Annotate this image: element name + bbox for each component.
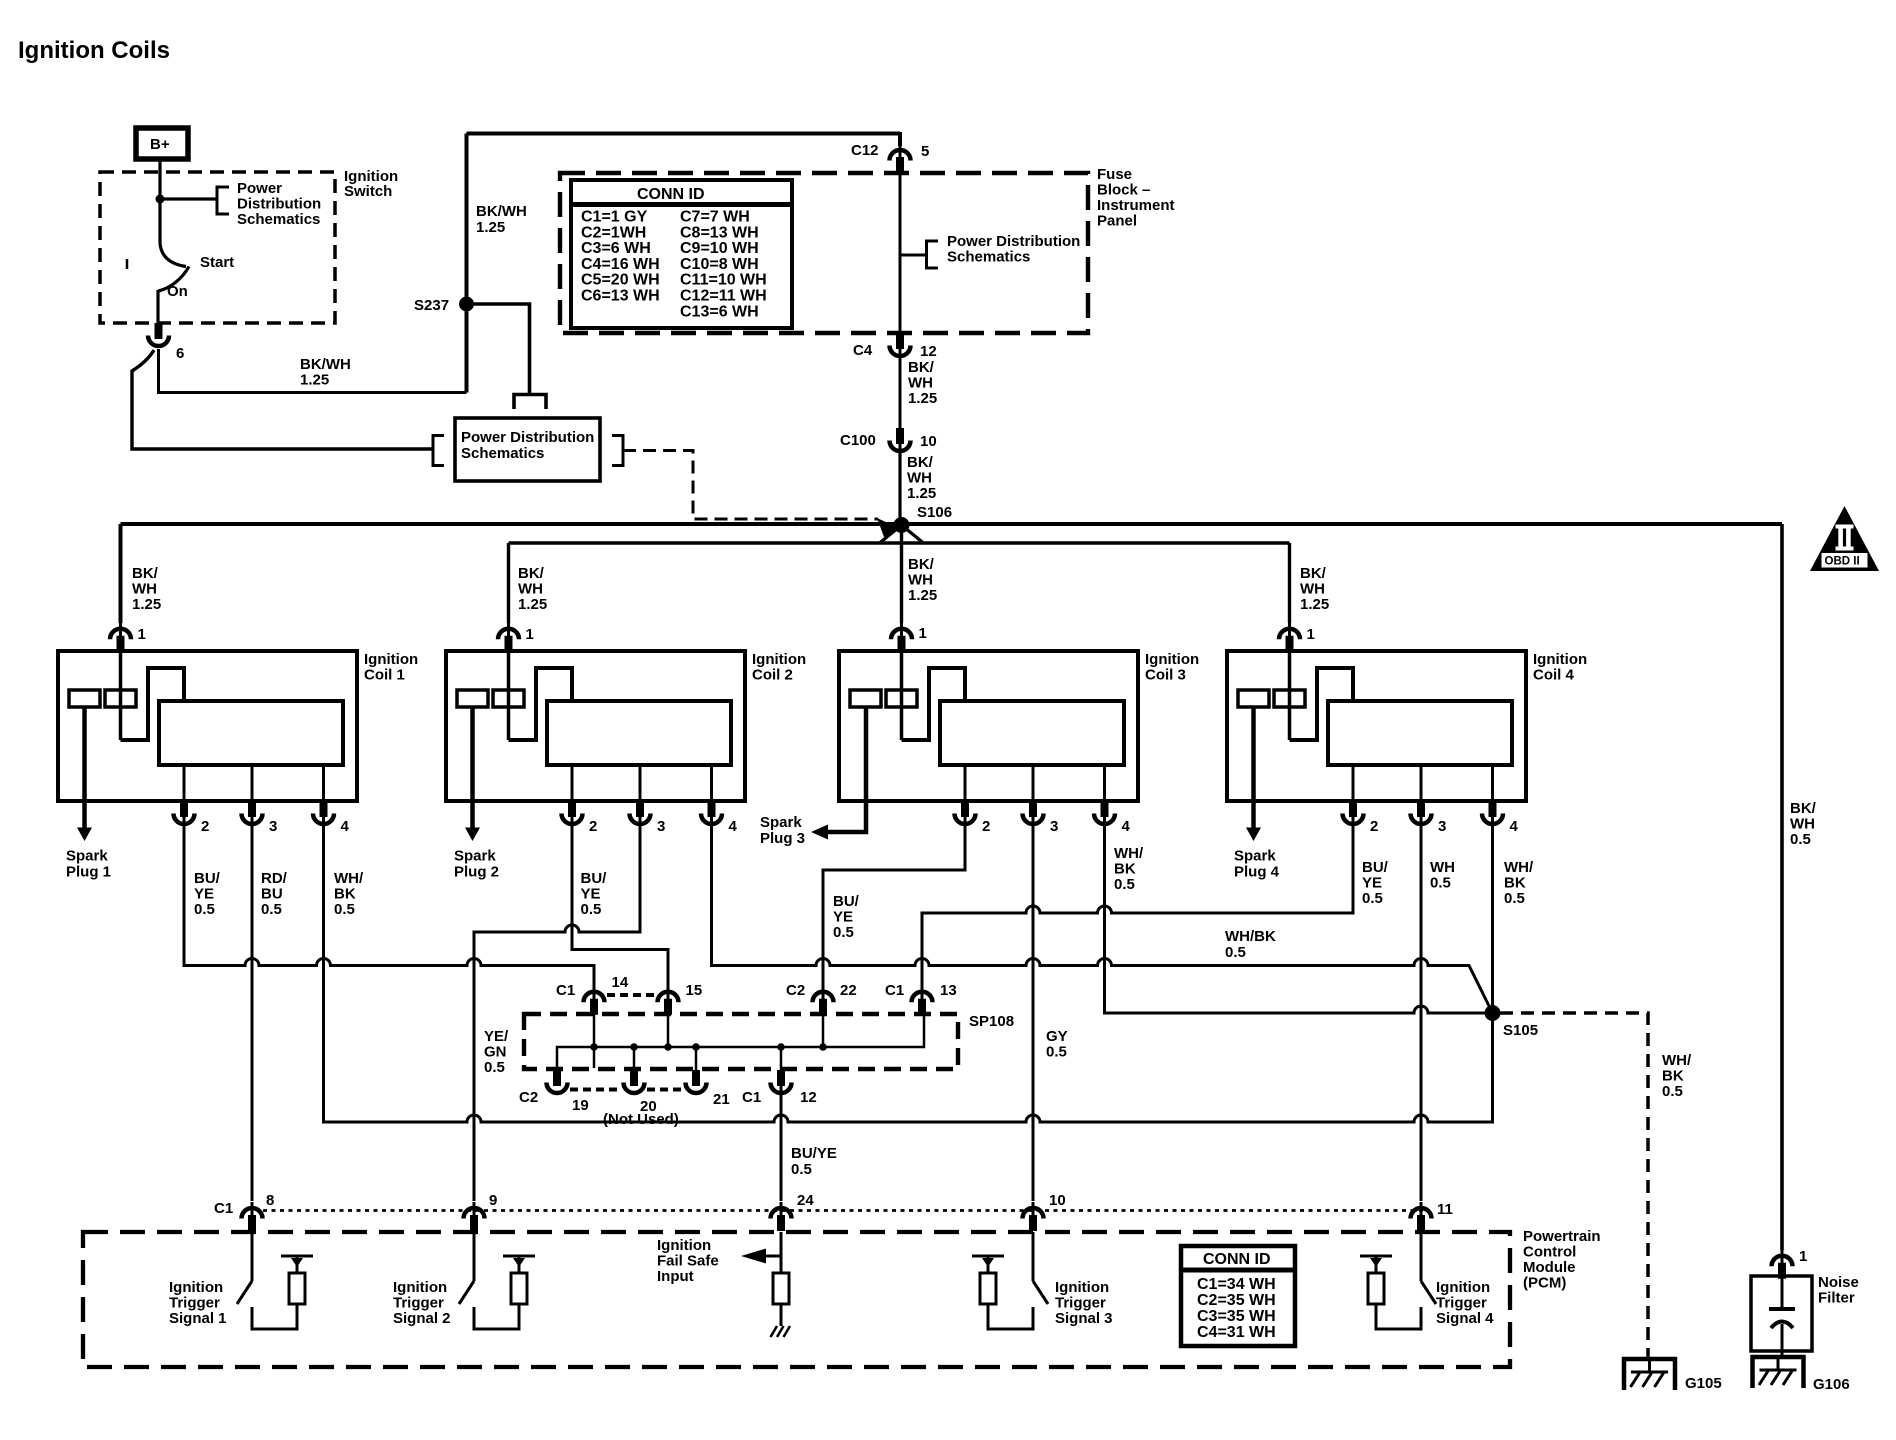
- coil 4 connector pin 2: [1343, 801, 1364, 831]
- svg-text:Schematics: Schematics: [461, 445, 544, 462]
- coil 3 connector pin 4: [1094, 801, 1115, 831]
- noise filter capacitor: [1781, 1278, 1784, 1309]
- wire coil2 pin3 to PCM 9: [474, 830, 640, 1201]
- svg-text:BU/: BU/: [833, 893, 860, 910]
- svg-text:WH: WH: [1300, 581, 1325, 598]
- coil 2 connector pin 4: [701, 801, 722, 831]
- svg-text:Signal 2: Signal 2: [393, 1310, 451, 1327]
- coil 2 internal pin wires: [572, 765, 712, 801]
- fuse block instrument panel box: [560, 173, 1088, 333]
- svg-text:C3=6 WH: C3=6 WH: [581, 240, 651, 257]
- svg-text:C2: C2: [519, 1089, 538, 1106]
- node bus 12: [777, 1043, 785, 1051]
- wire coil3 pin3 GY to PCM 10: [1032, 830, 1035, 1201]
- svg-text:3: 3: [657, 818, 665, 835]
- svg-text:10: 10: [1049, 1192, 1066, 1209]
- coil 3 primary terminal rect: [850, 690, 881, 707]
- svg-text:Trigger: Trigger: [393, 1295, 444, 1312]
- svg-text:WH/: WH/: [1662, 1052, 1692, 1069]
- svg-text:Coil 3: Coil 3: [1145, 667, 1186, 684]
- svg-text:0.5: 0.5: [261, 901, 282, 918]
- wire drop coil 2 feed: [507, 543, 510, 623]
- tick to power distribution bracket: [900, 254, 926, 257]
- wire top feed to C12: [467, 132, 901, 136]
- coil 2 box: [446, 651, 745, 801]
- coil 4 connector pin 1: [1279, 623, 1300, 652]
- svg-text:Module: Module: [1523, 1259, 1576, 1276]
- svg-text:1.25: 1.25: [300, 372, 329, 389]
- svg-text:S105: S105: [1503, 1022, 1538, 1039]
- power distribution schematics box: [455, 418, 600, 481]
- coil 1 primary terminal rect: [69, 690, 100, 707]
- svg-text:C11=10 WH: C11=10 WH: [680, 272, 767, 289]
- wire 22 to bus: [822, 1014, 825, 1047]
- svg-text:C1: C1: [556, 982, 575, 999]
- svg-text:Ignition: Ignition: [752, 651, 806, 668]
- svg-text:BK: BK: [1504, 875, 1526, 892]
- svg-text:B+: B+: [150, 136, 170, 153]
- svg-text:CONN ID: CONN ID: [1203, 1251, 1271, 1268]
- svg-text:Trigger: Trigger: [169, 1295, 220, 1312]
- svg-text:C4=16 WH: C4=16 WH: [581, 256, 660, 273]
- dashed wire S105 to G105: [1500, 1013, 1648, 1357]
- ignition fail safe input cell: [780, 1232, 783, 1273]
- coil 3 secondary terminal rect: [886, 690, 917, 707]
- svg-text:Ignition: Ignition: [1145, 651, 1199, 668]
- svg-text:GN: GN: [484, 1044, 507, 1061]
- svg-text:C6=13 WH: C6=13 WH: [581, 288, 660, 305]
- CONN ID table (fuse block): [571, 180, 792, 328]
- coil 4 pin 1 internal wire: [1288, 651, 1292, 740]
- connector pin 20: [624, 1070, 645, 1093]
- svg-text:C100: C100: [840, 432, 876, 449]
- coil 3 connector pin 3: [1023, 801, 1044, 831]
- svg-text:3: 3: [1050, 818, 1058, 835]
- svg-text:BK/: BK/: [518, 565, 545, 582]
- connector C2 pin 22: [813, 986, 834, 1015]
- ignition switch box: [100, 172, 335, 323]
- coil 3 internal pin wires: [965, 765, 1105, 801]
- svg-text:Instrument: Instrument: [1097, 197, 1175, 214]
- coil 4 primary terminal rect: [1238, 690, 1269, 707]
- svg-text:BK/: BK/: [1300, 565, 1327, 582]
- coil 4 connector pin 4: [1482, 801, 1503, 831]
- wire S237 riser: [465, 134, 469, 393]
- wire coil2 pin4 WH/BK to S105: [712, 830, 1493, 1013]
- svg-text:1: 1: [919, 625, 927, 642]
- svg-text:1: 1: [1307, 626, 1315, 643]
- svg-text:Signal 1: Signal 1: [169, 1310, 227, 1327]
- svg-text:Trigger: Trigger: [1055, 1295, 1106, 1312]
- svg-text:YE: YE: [581, 886, 601, 903]
- svg-text:WH: WH: [908, 375, 933, 392]
- svg-text:C2=1WH: C2=1WH: [581, 224, 646, 241]
- svg-text:0.5: 0.5: [791, 1161, 812, 1178]
- svg-text:Panel: Panel: [1097, 213, 1137, 230]
- svg-text:10: 10: [920, 433, 937, 450]
- trigger cell 2: [459, 1232, 535, 1329]
- coil 2 connector pin 3: [630, 801, 651, 831]
- svg-text:12: 12: [800, 1089, 817, 1106]
- svg-text:YE: YE: [833, 909, 853, 926]
- connector C1 pin 15: [658, 986, 679, 1015]
- wire C100 to S106: [898, 454, 901, 525]
- ground G106: [1751, 1355, 1806, 1388]
- svg-text:1.25: 1.25: [132, 596, 161, 613]
- switch pole tick: [126, 259, 129, 269]
- mating line 19-21: [570, 1088, 683, 1092]
- svg-text:Schematics: Schematics: [237, 211, 320, 228]
- svg-text:Ignition: Ignition: [1436, 1279, 1490, 1296]
- svg-text:0.5: 0.5: [1504, 890, 1525, 907]
- svg-text:OBD II: OBD II: [1825, 556, 1860, 568]
- svg-text:0.5: 0.5: [484, 1059, 505, 1076]
- svg-text:C8=13 WH: C8=13 WH: [680, 224, 759, 241]
- wire switch to connector 6: [156, 290, 159, 324]
- svg-text:Spark: Spark: [1234, 848, 1276, 865]
- connector C1 pin 13: [912, 986, 933, 1015]
- svg-text:BK: BK: [334, 886, 356, 903]
- PCM mating line: [263, 1209, 1423, 1212]
- svg-text:Power Distribution: Power Distribution: [947, 233, 1080, 250]
- svg-text:2: 2: [589, 818, 597, 835]
- svg-text:24: 24: [797, 1192, 814, 1209]
- svg-text:WH: WH: [908, 572, 933, 589]
- svg-text:0.5: 0.5: [1362, 890, 1383, 907]
- connector pin 21: [686, 1070, 707, 1093]
- svg-text:C1=1 GY: C1=1 GY: [581, 209, 648, 226]
- wire drop coil 3 feed: [900, 525, 903, 623]
- svg-text:BU/YE: BU/YE: [791, 1145, 837, 1162]
- ground G105: [1622, 1357, 1677, 1390]
- svg-text:WH/: WH/: [1114, 845, 1144, 862]
- coil 4 secondary terminal rect: [1274, 690, 1305, 707]
- dashed wire power distribution to S106: [623, 451, 878, 520]
- svg-text:C1: C1: [214, 1200, 233, 1217]
- svg-text:0.5: 0.5: [1662, 1083, 1683, 1100]
- svg-text:Filter: Filter: [1818, 1290, 1855, 1307]
- svg-text:(PCM): (PCM): [1523, 1275, 1566, 1292]
- coil 3 module rect: [940, 701, 1124, 765]
- arrow into S106: [877, 518, 899, 537]
- splice bus YE/GN: [557, 1012, 924, 1070]
- svg-text:1.25: 1.25: [518, 596, 547, 613]
- connector C1 pin 24: [771, 1202, 792, 1231]
- coil 4 internal pin wires: [1353, 765, 1493, 801]
- ignition coil 3: [760, 651, 1199, 847]
- wire connector 6 to S237: [159, 349, 467, 393]
- second bus BK/WH: [509, 541, 1290, 544]
- svg-text:BK/: BK/: [908, 359, 935, 376]
- svg-text:C10=8 WH: C10=8 WH: [680, 256, 759, 273]
- svg-text:WH/: WH/: [334, 870, 364, 887]
- svg-text:C4: C4: [853, 342, 873, 359]
- svg-text:C2: C2: [786, 982, 805, 999]
- svg-text:WH: WH: [518, 581, 543, 598]
- wire coil1 pin2 BU/YE to connector 14: [184, 830, 594, 987]
- node bus 20: [630, 1043, 638, 1051]
- svg-text:0.5: 0.5: [1790, 831, 1811, 848]
- junction diagonals S106: [879, 525, 924, 544]
- coil 1 box: [58, 651, 357, 801]
- svg-text:BU/: BU/: [581, 870, 608, 887]
- coil 4 module rect: [1328, 701, 1512, 765]
- svg-text:Coil 4: Coil 4: [1533, 667, 1574, 684]
- noise filter box: [1751, 1276, 1812, 1351]
- trigger cell 1: [237, 1232, 313, 1329]
- coil 2 module rect: [547, 701, 731, 765]
- svg-text:BK/: BK/: [132, 565, 159, 582]
- svg-text:BK: BK: [1114, 861, 1136, 878]
- svg-text:Plug 4: Plug 4: [1234, 864, 1280, 881]
- svg-text:Ignition Coils: Ignition Coils: [18, 37, 170, 64]
- node S237: [459, 297, 474, 312]
- svg-text:WH: WH: [907, 470, 932, 487]
- svg-text:0.5: 0.5: [1225, 944, 1246, 961]
- bracket left of power distribution box: [433, 436, 444, 466]
- svg-text:9: 9: [489, 1192, 497, 1209]
- wire 15 to bus: [667, 1013, 670, 1047]
- coil 1 pin 1 internal wire: [119, 651, 123, 740]
- svg-text:Schematics: Schematics: [947, 249, 1030, 266]
- svg-text:Signal 4: Signal 4: [1436, 1310, 1494, 1327]
- svg-text:C3=35 WH: C3=35 WH: [1197, 1308, 1276, 1325]
- svg-text:Spark: Spark: [66, 848, 108, 865]
- svg-text:YE/: YE/: [484, 1028, 509, 1045]
- svg-text:G105: G105: [1685, 1375, 1722, 1392]
- svg-text:Ignition: Ignition: [657, 1237, 711, 1254]
- svg-text:Control: Control: [1523, 1244, 1576, 1261]
- svg-text:1: 1: [1799, 1248, 1807, 1265]
- node switch feed: [156, 195, 165, 204]
- svg-text:C1: C1: [885, 982, 904, 999]
- svg-text:2: 2: [1370, 818, 1378, 835]
- svg-text:1: 1: [526, 626, 534, 643]
- wire to power distribution bracket: [160, 197, 216, 200]
- switch contact On: [158, 267, 189, 292]
- connector C1 pin 10: [1023, 1202, 1044, 1231]
- ignition coil 1: [58, 651, 418, 881]
- svg-text:Plug 3: Plug 3: [760, 830, 805, 847]
- svg-text:0.5: 0.5: [334, 901, 355, 918]
- connector C1 pin 8: [242, 1202, 263, 1231]
- svg-text:14: 14: [612, 974, 629, 991]
- trigger cell 4: [1360, 1232, 1436, 1329]
- svg-text:Plug 1: Plug 1: [66, 864, 111, 881]
- svg-text:WH: WH: [1430, 859, 1455, 876]
- wire B+ to switch: [158, 159, 161, 243]
- bracket right of power distribution box: [612, 436, 623, 466]
- wire C4 to C100: [899, 359, 902, 429]
- wire drop coil 1 feed: [119, 524, 123, 623]
- coil 1 connector pin 2: [174, 801, 195, 831]
- wire connector 6 tail: [132, 350, 433, 449]
- svg-text:BK/WH: BK/WH: [300, 356, 351, 373]
- svg-text:15: 15: [686, 982, 703, 999]
- svg-text:0.5: 0.5: [194, 901, 215, 918]
- svg-text:BU/: BU/: [1362, 859, 1389, 876]
- ignition coil 2: [446, 651, 806, 881]
- svg-text:C7=7 WH: C7=7 WH: [680, 209, 750, 226]
- connector noise filter pin 1: [1772, 1250, 1793, 1279]
- svg-text:Ignition: Ignition: [1055, 1279, 1109, 1296]
- svg-text:C13=6 WH: C13=6 WH: [680, 303, 759, 320]
- coil 2 connector pin 2: [562, 801, 583, 831]
- svg-text:C9=10 WH: C9=10 WH: [680, 240, 759, 257]
- svg-text:On: On: [167, 283, 188, 300]
- svg-text:S106: S106: [917, 504, 952, 521]
- coil 1 connector pin 4: [313, 801, 334, 831]
- coil 2 secondary terminal rect: [493, 690, 524, 707]
- coil 1 spark plug wire: [82, 707, 87, 828]
- svg-text:SP108: SP108: [969, 1013, 1014, 1030]
- connector C100 pin 10: [890, 428, 911, 458]
- svg-text:WH/BK: WH/BK: [1225, 928, 1276, 945]
- svg-text:Noise: Noise: [1818, 1274, 1859, 1291]
- svg-text:1.25: 1.25: [476, 219, 505, 236]
- wire coil4 pin3 WH to PCM 11: [1420, 830, 1423, 1201]
- svg-text:4: 4: [1122, 818, 1131, 835]
- coil 1 connector pin 1: [110, 623, 131, 652]
- svg-text:0.5: 0.5: [1046, 1044, 1067, 1061]
- bracket power distribution (fuse block): [927, 241, 939, 268]
- svg-text:WH/: WH/: [1504, 859, 1534, 876]
- svg-text:WH: WH: [132, 581, 157, 598]
- svg-text:1: 1: [138, 626, 146, 643]
- svg-text:1.25: 1.25: [908, 587, 937, 604]
- svg-text:C5=20 WH: C5=20 WH: [581, 272, 660, 289]
- connector C1 pin 11: [1411, 1202, 1432, 1231]
- coil 4 spark plug wire: [1251, 707, 1256, 828]
- svg-text:2: 2: [982, 818, 990, 835]
- connector 6: [148, 323, 169, 346]
- coil 1 internal pin wires: [184, 765, 324, 801]
- svg-text:Spark: Spark: [760, 814, 802, 831]
- svg-text:C4=31 WH: C4=31 WH: [1197, 1324, 1276, 1341]
- svg-text:4: 4: [729, 818, 738, 835]
- wire top feed drop to C12: [898, 132, 902, 146]
- coil 2 primary terminal rect: [457, 690, 488, 707]
- wire 20 to bus: [633, 1047, 636, 1070]
- wire coil1 pin4 WH/BK to S105: [324, 830, 1493, 1122]
- wire 14 to bus: [593, 1013, 596, 1068]
- coil 3 connector pin 2: [955, 801, 976, 831]
- svg-text:Ignition: Ignition: [1533, 651, 1587, 668]
- svg-text:21: 21: [713, 1091, 730, 1108]
- svg-text:C1=34 WH: C1=34 WH: [1197, 1276, 1276, 1293]
- svg-text:19: 19: [572, 1097, 589, 1114]
- bracket power distribution (ignition switch): [217, 187, 229, 214]
- main bus BK/WH top: [121, 522, 1783, 526]
- svg-text:C12=11 WH: C12=11 WH: [680, 288, 767, 305]
- coil 1 module rect: [159, 701, 343, 765]
- coil 2 internal winding wire: [509, 668, 573, 740]
- connector C2 pin 19: [547, 1070, 568, 1093]
- svg-text:Input: Input: [657, 1268, 694, 1285]
- svg-text:6: 6: [176, 345, 184, 362]
- svg-text:0.5: 0.5: [581, 901, 602, 918]
- svg-text:C12: C12: [851, 142, 879, 159]
- svg-text:Ignition: Ignition: [169, 1279, 223, 1296]
- OBD II symbol: [1810, 506, 1879, 571]
- wire inside fuse block: [899, 173, 902, 333]
- svg-text:BK/: BK/: [907, 454, 934, 471]
- svg-text:5: 5: [921, 143, 929, 160]
- svg-text:12: 12: [920, 343, 937, 360]
- PCM box: [83, 1232, 1510, 1367]
- battery feed B+: [136, 128, 188, 159]
- svg-text:3: 3: [269, 818, 277, 835]
- svg-text:BU: BU: [261, 886, 283, 903]
- trigger cell 3: [972, 1232, 1048, 1329]
- svg-text:Plug 2: Plug 2: [454, 864, 499, 881]
- svg-text:Trigger: Trigger: [1436, 1295, 1487, 1312]
- svg-text:1.25: 1.25: [907, 485, 936, 502]
- svg-text:Ignition: Ignition: [393, 1279, 447, 1296]
- connector C1 pin 9: [464, 1202, 485, 1231]
- svg-text:Fail Safe: Fail Safe: [657, 1253, 719, 1270]
- svg-text:1.25: 1.25: [908, 390, 937, 407]
- node bus 22: [819, 1043, 827, 1051]
- svg-text:WH: WH: [1790, 816, 1815, 833]
- svg-text:2: 2: [201, 818, 209, 835]
- svg-text:Signal 3: Signal 3: [1055, 1310, 1113, 1327]
- svg-text:22: 22: [840, 982, 857, 999]
- svg-text:8: 8: [266, 1192, 274, 1209]
- node S105: [1485, 1005, 1501, 1021]
- node bus 21: [692, 1043, 700, 1051]
- svg-text:Spark: Spark: [454, 848, 496, 865]
- node bus 15: [664, 1043, 672, 1051]
- node S106: [894, 517, 910, 533]
- svg-text:GY: GY: [1046, 1028, 1068, 1045]
- wire coil3 pin4 WH/BK to S105: [1105, 830, 1493, 1013]
- wire coil3 pin2 BU/YE to connector 22: [823, 830, 965, 987]
- connector C1 pin 12: [771, 1070, 792, 1100]
- svg-text:Start: Start: [200, 254, 234, 271]
- svg-text:4: 4: [1510, 818, 1519, 835]
- svg-text:C1: C1: [742, 1089, 761, 1106]
- coil 4 box: [1227, 651, 1526, 801]
- switch blade Start: [160, 243, 186, 267]
- coil 1 internal winding wire: [121, 668, 185, 740]
- svg-text:Power Distribution: Power Distribution: [461, 429, 594, 446]
- svg-text:11: 11: [1437, 1201, 1453, 1218]
- svg-text:Block –: Block –: [1097, 182, 1150, 199]
- wire coil1 pin3 RD/BU to PCM 8: [251, 830, 254, 1201]
- coil 4 connector pin 3: [1411, 801, 1432, 831]
- coil 1 connector pin 3: [242, 801, 263, 831]
- svg-text:Ignition: Ignition: [364, 651, 418, 668]
- svg-text:Switch: Switch: [344, 183, 392, 200]
- svg-text:(Not Used): (Not Used): [603, 1111, 679, 1128]
- svg-text:CONN ID: CONN ID: [637, 186, 705, 203]
- connector C1 pin 14: [584, 986, 605, 1015]
- svg-text:0.5: 0.5: [1430, 875, 1451, 892]
- coil 2 spark plug wire: [470, 707, 475, 828]
- svg-text:Powertrain: Powertrain: [1523, 1228, 1601, 1245]
- splice SP108 box: [524, 1014, 958, 1069]
- coil 3 connector pin 1: [891, 623, 912, 652]
- svg-text:BU/: BU/: [194, 870, 221, 887]
- ignition coil 4: [1227, 651, 1587, 881]
- svg-text:BK/: BK/: [908, 556, 935, 573]
- svg-text:BK: BK: [1662, 1068, 1684, 1085]
- svg-text:C2=35 WH: C2=35 WH: [1197, 1292, 1276, 1309]
- svg-text:3: 3: [1438, 818, 1446, 835]
- connector C4 pin 12: [890, 333, 911, 363]
- svg-text:1.25: 1.25: [1300, 596, 1329, 613]
